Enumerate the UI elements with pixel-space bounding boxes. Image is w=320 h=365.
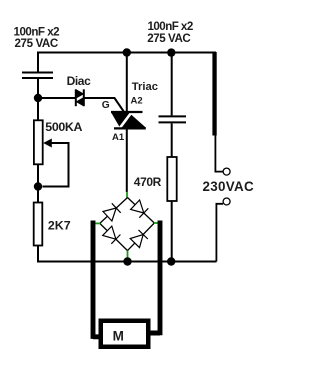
capacitor C1 bbox=[22, 73, 53, 79]
diode D3 top-right bbox=[131, 200, 149, 218]
wire bottom rail bbox=[37, 261, 217, 263]
thick lead bridge right to motor bbox=[151, 221, 161, 336]
motor M body bbox=[99, 319, 151, 350]
wire top rail to C2 bbox=[171, 53, 173, 115]
node A junction bbox=[34, 94, 42, 102]
node top rail at C2 bbox=[167, 48, 175, 56]
potentiometer R1 body bbox=[34, 120, 43, 164]
svg-text:500KA: 500KA bbox=[45, 120, 82, 134]
node top rail at triac bbox=[123, 48, 131, 56]
svg-text:G: G bbox=[102, 100, 110, 111]
wire green stub bridge bottom bbox=[127, 251, 129, 258]
svg-text:A1: A1 bbox=[112, 132, 125, 143]
capacitor C2 bbox=[159, 116, 187, 122]
diode D2 top-left bbox=[103, 203, 121, 221]
svg-text:230VAC: 230VAC bbox=[203, 179, 254, 194]
wire to terminal 1 bbox=[215, 135, 223, 172]
thick lead mains right bbox=[212, 52, 216, 136]
svg-text:Triac: Triac bbox=[132, 81, 158, 93]
svg-text:275 VAC: 275 VAC bbox=[15, 37, 59, 50]
resistor R2 body bbox=[34, 203, 43, 246]
svg-text:A2: A2 bbox=[131, 95, 143, 106]
diac D1 bbox=[76, 89, 85, 106]
node B junction bbox=[34, 182, 42, 190]
svg-text:275 VAC: 275 VAC bbox=[147, 32, 191, 45]
wire triac A1 down bbox=[126, 129, 128, 193]
wire triac A2 to top rail bbox=[126, 53, 128, 112]
resistor R3 body bbox=[167, 157, 176, 201]
wire node A to pot bbox=[37, 98, 39, 121]
wire C2 to R3 bbox=[171, 123, 173, 157]
diode D4 bottom-left bbox=[103, 226, 121, 244]
wire node A to diac bbox=[38, 97, 76, 99]
wire green stub bridge top bbox=[126, 192, 128, 198]
triac U1 bbox=[111, 111, 146, 130]
thick lead bridge left to motor bbox=[93, 221, 99, 339]
bridge rectifier edges bbox=[100, 198, 155, 251]
wire diac to triac gate bbox=[85, 98, 124, 112]
wire pot bottom to node B bbox=[37, 164, 39, 186]
diode D5 bottom-right bbox=[130, 230, 148, 248]
terminal 1 bbox=[223, 168, 230, 175]
terminal 2 bbox=[223, 198, 230, 205]
wire top rail bbox=[37, 53, 216, 73]
node bottom rail at bridge bbox=[123, 257, 131, 265]
wire green stub bridge left bbox=[95, 222, 100, 224]
svg-text:Diac: Diac bbox=[67, 74, 91, 88]
wire node B to R2 bbox=[37, 187, 39, 203]
wire green stub bridge right bbox=[154, 222, 158, 224]
svg-text:M: M bbox=[113, 329, 124, 344]
wire C1 to node A bbox=[37, 79, 39, 98]
svg-text:470R: 470R bbox=[134, 175, 162, 189]
wire R3 to bottom rail bbox=[171, 201, 173, 262]
potentiometer wiper arrow bbox=[43, 139, 69, 187]
wire terminal 2 to bottom rail bbox=[216, 204, 223, 262]
node bottom rail at R3 bbox=[167, 257, 175, 265]
svg-text:2K7: 2K7 bbox=[48, 219, 71, 233]
wire R2 to bottom rail bbox=[37, 246, 39, 263]
